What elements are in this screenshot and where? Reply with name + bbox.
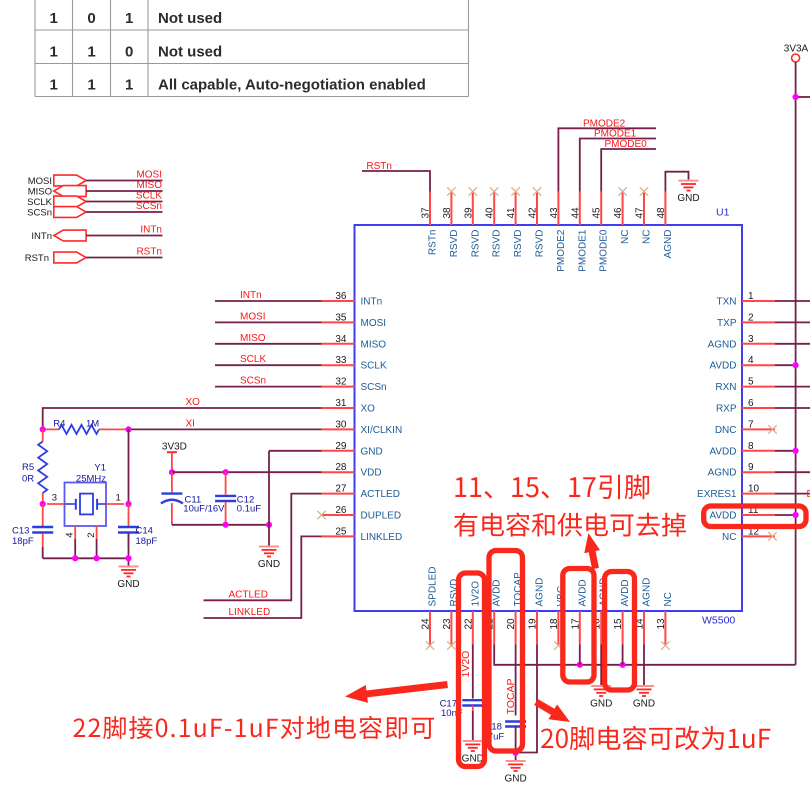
wire MOSI — [86, 180, 162, 182]
svg-text:1: 1 — [87, 44, 95, 61]
C17 bottom lead — [472, 706, 474, 712]
C11 top lead — [171, 472, 173, 492]
wire AGND pin 3 — [775, 343, 810, 345]
svg-text:1: 1 — [116, 493, 121, 504]
svg-text:RSVD: RSVD — [449, 230, 460, 258]
pin 20 TOCAP stub — [515, 611, 517, 645]
pin 32 SCSn stub — [322, 386, 355, 388]
svg-text:45: 45 — [592, 207, 603, 219]
wire crystal gnd rail — [43, 557, 129, 559]
svg-text:40: 40 — [485, 207, 496, 219]
wire AVDD pin 4 — [775, 364, 796, 366]
wire AGND pin19 — [516, 645, 537, 753]
wire AGND pin16 down — [600, 645, 602, 686]
junction TOCAP/AGND19 — [513, 750, 519, 756]
svg-text:VDD: VDD — [361, 468, 382, 479]
capacitor C11 plates — [161, 494, 183, 504]
svg-text:Not used: Not used — [158, 10, 222, 27]
no-connect pin 40 — [490, 187, 498, 195]
wire ACTLED — [204, 494, 322, 601]
svg-text:6: 6 — [748, 398, 754, 409]
svg-text:MISO: MISO — [361, 339, 387, 350]
capacitor C14 plates — [118, 527, 139, 533]
pin 44 PMODE1 stub — [579, 192, 581, 226]
pin 48 AGND stub — [664, 192, 666, 226]
junction C12 bottom — [223, 522, 229, 528]
no-connect pin 23 — [447, 641, 455, 649]
pin 35 MOSI stub — [322, 321, 355, 323]
ground (pin16) — [590, 686, 612, 710]
pin 45 PMODE0 stub — [600, 192, 602, 226]
svg-text:SCSn: SCSn — [136, 201, 162, 212]
svg-text:3V3A: 3V3A — [784, 44, 809, 55]
pin 9 AGND stub — [742, 471, 775, 473]
svg-text:19: 19 — [528, 618, 539, 630]
C14 bottom lead — [128, 534, 130, 548]
svg-text:10uF/16V: 10uF/16V — [183, 503, 225, 514]
svg-text:E: E — [807, 489, 810, 500]
svg-text:23: 23 — [442, 618, 453, 630]
pin 5 RXN stub — [742, 386, 775, 388]
svg-text:MISO: MISO — [240, 333, 266, 344]
svg-text:18pF: 18pF — [12, 536, 34, 547]
svg-text:1: 1 — [125, 77, 133, 94]
annotation arrow (20-pin note) — [534, 699, 570, 722]
svg-text:1V2O: 1V2O — [460, 651, 472, 678]
svg-text:Not used: Not used — [158, 44, 222, 61]
pin 37 RSTn stub — [429, 192, 431, 226]
svg-text:20: 20 — [506, 618, 517, 630]
wire MOSI — [215, 321, 322, 323]
wire AGND pin 9 — [775, 471, 810, 473]
svg-text:RSVD: RSVD — [492, 230, 503, 258]
C13 bottom lead — [42, 534, 44, 548]
3V3D bar — [167, 451, 177, 453]
svg-text:RSVD: RSVD — [470, 230, 481, 258]
highlight box pins 21/20 — [489, 551, 523, 752]
pin 8 AVDD stub — [742, 450, 775, 452]
svg-text:AGND: AGND — [535, 578, 546, 607]
svg-text:MOSI: MOSI — [136, 170, 162, 181]
svg-text:W5500: W5500 — [702, 615, 735, 627]
svg-text:31: 31 — [335, 398, 347, 409]
capacitor C12 plates — [215, 496, 236, 501]
svg-text:ACTLED: ACTLED — [361, 489, 400, 500]
ground (C17) — [462, 741, 484, 765]
highlight box pin17 — [563, 569, 594, 683]
annotation text line 1 — [455, 475, 649, 500]
junction pin4 — [72, 555, 78, 561]
svg-text:AGND: AGND — [642, 578, 653, 607]
pin 25 LINKLED stub — [322, 535, 355, 537]
no-connect pin 12 — [768, 532, 776, 540]
svg-text:36: 36 — [335, 291, 347, 302]
svg-text:44: 44 — [570, 207, 581, 219]
svg-text:RSTn: RSTn — [428, 230, 439, 256]
wire AVDD pin 11 — [775, 514, 796, 516]
highlight box pin15 — [605, 572, 635, 691]
svg-text:AVDD: AVDD — [492, 579, 503, 606]
pin 43 PMODE2 stub — [557, 192, 559, 226]
svg-text:3: 3 — [52, 493, 57, 504]
svg-text:46: 46 — [613, 207, 624, 219]
ground (C11 C12) — [258, 547, 280, 571]
svg-text:1: 1 — [748, 291, 754, 302]
svg-text:2: 2 — [86, 533, 97, 538]
pin 39 RSVD stub — [472, 192, 474, 226]
svg-text:GND: GND — [361, 446, 383, 457]
svg-text:15: 15 — [613, 618, 624, 630]
pin 42 RSVD stub — [536, 192, 538, 226]
svg-text:7: 7 — [748, 419, 754, 430]
svg-text:38: 38 — [442, 207, 453, 219]
capacitor C13 plates — [32, 527, 53, 533]
svg-text:XO: XO — [186, 397, 201, 408]
wire EXRES1 pin 10 — [775, 493, 810, 495]
svg-text:9: 9 — [748, 462, 754, 473]
pin 24 SPDLED stub — [429, 611, 431, 645]
svg-text:22: 22 — [463, 618, 474, 630]
svg-text:INTn: INTn — [240, 290, 262, 301]
pin 1 TXN stub — [742, 300, 775, 302]
wire to ground — [128, 558, 130, 566]
resistor R4 — [43, 425, 129, 434]
wire RXN pin 5 — [775, 386, 810, 388]
pin 31 XO stub — [322, 407, 355, 409]
svg-text:INTn: INTn — [140, 225, 162, 236]
svg-text:27: 27 — [335, 484, 347, 495]
wire PMODE0 — [601, 149, 656, 192]
svg-text:ACTLED: ACTLED — [229, 589, 268, 600]
port connector MISO — [54, 186, 86, 197]
svg-text:XO: XO — [361, 404, 376, 415]
svg-text:MOSI: MOSI — [28, 176, 52, 187]
svg-text:NC: NC — [642, 230, 653, 244]
no-connect DUPLED — [317, 511, 325, 519]
svg-text:0: 0 — [125, 44, 133, 61]
svg-text:RSVD: RSVD — [535, 230, 546, 258]
wire AGND pin14 down — [643, 645, 645, 686]
svg-text:INTn: INTn — [361, 297, 383, 308]
svg-text:NC: NC — [620, 230, 631, 244]
C11 bottom lead — [171, 503, 173, 525]
pin 36 INTn stub — [322, 300, 355, 302]
wire PMODE2 — [558, 128, 656, 191]
wire cap gnd rail — [172, 524, 269, 526]
svg-text:1: 1 — [50, 77, 58, 94]
C14 top lead — [128, 504, 130, 527]
svg-text:GND: GND — [258, 559, 280, 570]
svg-text:1: 1 — [125, 10, 133, 27]
svg-text:NC: NC — [722, 532, 736, 543]
resistor R5 — [38, 429, 47, 504]
wire AVDD pin17 down — [579, 645, 581, 665]
svg-text:DNC: DNC — [715, 425, 737, 436]
pin 47 NC stub — [643, 192, 645, 226]
junction XI/R4 — [125, 426, 131, 432]
wire Y1 pin4 — [74, 539, 76, 558]
wire XI — [129, 428, 322, 430]
svg-text:Y1: Y1 — [94, 463, 106, 474]
no-connect pin 18 — [554, 641, 562, 649]
svg-text:SCLK: SCLK — [240, 354, 266, 365]
wire C18 to gnd — [515, 727, 517, 761]
wire AVDD pin15 down — [622, 645, 624, 665]
ground (pin48) — [677, 181, 699, 205]
svg-text:AVDD: AVDD — [620, 579, 631, 606]
pin 41 RSVD stub — [515, 192, 517, 226]
svg-text:AGND: AGND — [663, 230, 674, 259]
svg-text:PMODE0: PMODE0 — [605, 139, 648, 150]
ground (pin14) — [633, 686, 655, 710]
wire INTn — [86, 235, 162, 237]
pin 11 AVDD stub — [742, 514, 775, 516]
svg-text:26: 26 — [335, 505, 347, 516]
pin 28 VDD stub — [322, 471, 355, 473]
svg-text:1: 1 — [50, 10, 58, 27]
svg-text:1: 1 — [87, 77, 95, 94]
truth table (top-left, cropped) — [35, 0, 469, 97]
no-connect pin 7 — [768, 425, 776, 433]
wire TOCAP down — [515, 645, 517, 716]
C12 bottom lead — [225, 502, 227, 525]
svg-text:30: 30 — [335, 419, 347, 430]
wire PMODE1 — [580, 139, 656, 192]
pin 33 SCLK stub — [322, 364, 355, 366]
no-connect pin 47 — [640, 187, 648, 195]
svg-text:0R: 0R — [22, 474, 34, 485]
svg-text:13: 13 — [656, 618, 667, 630]
svg-text:28: 28 — [335, 462, 347, 473]
pin 22 1V2O stub — [472, 611, 474, 645]
junction AVDD pin 4 — [793, 362, 799, 368]
wire C13 to gnd rail — [42, 547, 44, 558]
pin 2 TXP stub — [742, 321, 775, 323]
wire 3V3A rail — [795, 62, 797, 665]
svg-text:25: 25 — [335, 526, 347, 537]
svg-text:1: 1 — [50, 44, 58, 61]
svg-text:AVDD: AVDD — [709, 361, 736, 372]
wire SCSn — [215, 386, 322, 388]
svg-text:SCSn: SCSn — [361, 382, 387, 393]
svg-text:39: 39 — [463, 207, 474, 219]
svg-text:SCLK: SCLK — [361, 361, 387, 372]
svg-text:LINKLED: LINKLED — [229, 607, 271, 618]
svg-text:DUPLED: DUPLED — [361, 511, 402, 522]
pin 26 DUPLED stub — [322, 514, 355, 516]
svg-text:18: 18 — [549, 618, 560, 630]
svg-text:48: 48 — [656, 207, 667, 219]
no-connect pin 46 — [618, 187, 626, 195]
wire SCSn — [86, 211, 162, 213]
ground (C18) — [504, 761, 526, 785]
svg-text:AVDD: AVDD — [709, 511, 736, 522]
svg-text:MOSI: MOSI — [361, 318, 387, 329]
wire C14 to gnd — [128, 534, 130, 559]
svg-text:NC: NC — [663, 592, 674, 606]
svg-text:SCLK: SCLK — [136, 191, 162, 202]
wire AVDD pin 8 — [775, 450, 796, 452]
junction AVDD pin17 — [577, 662, 583, 668]
capacitor C17 plates — [462, 700, 483, 705]
svg-text:EXRES1: EXRES1 — [697, 489, 737, 500]
C13 top lead — [42, 504, 44, 527]
port connector RSTn — [54, 252, 86, 263]
wire TXP pin 2 — [775, 321, 810, 323]
wire XI to crystal — [128, 429, 130, 504]
pin 27 ACTLED stub — [322, 493, 355, 495]
svg-text:8: 8 — [748, 441, 754, 452]
pin 30 XI/CLKIN stub — [322, 428, 355, 430]
svg-text:33: 33 — [335, 355, 347, 366]
svg-text:MOSI: MOSI — [240, 311, 266, 322]
wire 3V3A branch right — [796, 96, 810, 98]
wire MISO — [86, 190, 162, 192]
pin 14 AGND stub — [643, 611, 645, 645]
svg-text:47: 47 — [635, 207, 646, 219]
svg-text:18pF: 18pF — [136, 536, 158, 547]
svg-text:4: 4 — [748, 355, 754, 366]
junction XI/Y1-1/C14 — [125, 501, 131, 507]
pin 7 DNC stub — [742, 428, 775, 430]
3V3D lead — [171, 452, 173, 472]
pin 18 VBG stub — [557, 611, 559, 645]
svg-text:3V3D: 3V3D — [162, 442, 187, 453]
pin 4 AVDD stub — [742, 364, 775, 366]
svg-text:29: 29 — [335, 441, 347, 452]
port connector SCSn — [54, 207, 86, 218]
svg-text:2: 2 — [748, 312, 754, 323]
pin 16 AGND stub — [600, 611, 602, 645]
pin 29 GND stub — [322, 450, 355, 452]
svg-text:SPDLED: SPDLED — [428, 566, 439, 606]
C12 top lead — [225, 472, 227, 495]
svg-text:41: 41 — [506, 207, 517, 219]
no-connect pin 42 — [533, 187, 541, 195]
highlight box pin11 AVDD — [704, 506, 806, 527]
svg-text:RSVD: RSVD — [513, 230, 524, 258]
svg-text:PMODE2: PMODE2 — [556, 229, 567, 272]
no-connect pin 38 — [447, 187, 455, 195]
pin 10 EXRES1 stub — [742, 493, 775, 495]
wire AGND pin48 — [665, 172, 688, 192]
svg-text:XI/CLKIN: XI/CLKIN — [361, 425, 403, 436]
svg-text:RXN: RXN — [715, 382, 736, 393]
svg-text:3: 3 — [748, 334, 754, 345]
svg-text:GND: GND — [677, 193, 699, 204]
pin 21 AVDD stub — [493, 611, 495, 645]
junction C12 top — [223, 469, 229, 475]
svg-text:35: 35 — [335, 312, 347, 323]
svg-text:R5: R5 — [22, 462, 34, 473]
svg-text:32: 32 — [335, 377, 347, 388]
svg-text:17: 17 — [570, 618, 581, 630]
wire RSTn to pin37 — [362, 171, 430, 192]
junction R5/C13/Y1-3 — [40, 501, 46, 507]
junction 3V3A branch — [793, 94, 799, 100]
svg-text:TXN: TXN — [717, 297, 737, 308]
pin 17 AVDD stub — [579, 611, 581, 645]
svg-text:LINKLED: LINKLED — [361, 532, 403, 543]
annotation text (pin20 note) — [541, 726, 770, 750]
pin 46 NC stub — [622, 192, 624, 226]
crystal pin 1 stub — [106, 503, 124, 505]
no-connect pin 39 — [469, 187, 477, 195]
crystal pin 3 stub — [47, 503, 65, 505]
svg-text:PMODE1: PMODE1 — [577, 229, 588, 272]
svg-text:RXP: RXP — [716, 404, 737, 415]
svg-text:R4: R4 — [53, 419, 65, 430]
wire TXN pin 1 — [775, 300, 810, 302]
wire GND pin29 — [269, 450, 322, 452]
svg-text:PMODE0: PMODE0 — [599, 229, 610, 272]
junction AVDD pin15 — [620, 662, 626, 668]
svg-text:RSTn: RSTn — [136, 247, 162, 258]
svg-text:RSTn: RSTn — [25, 253, 49, 264]
svg-text:All capable, Auto-negotiation: All capable, Auto-negotiation enabled — [158, 77, 426, 94]
svg-text:37: 37 — [421, 207, 432, 219]
crystal Y1 25MHz — [65, 483, 107, 540]
svg-text:TOCAP: TOCAP — [505, 679, 517, 715]
no-connect pin 13 — [661, 641, 669, 649]
pin 13 NC stub — [664, 611, 666, 645]
svg-text:GND: GND — [633, 699, 655, 710]
svg-text:SCSn: SCSn — [240, 376, 266, 387]
highlight box pin22 1V2O — [459, 573, 485, 767]
wire SCLK — [215, 364, 322, 366]
svg-text:MISO: MISO — [136, 180, 162, 191]
pin 38 RSVD stub — [450, 192, 452, 226]
svg-text:GND: GND — [117, 579, 139, 590]
svg-text:TXP: TXP — [717, 318, 737, 329]
junction 3V3D/VDD — [169, 469, 175, 475]
pin 3 AGND stub — [742, 343, 775, 345]
capacitor C18 plates — [505, 722, 526, 727]
wire Y1 pin2 — [96, 539, 98, 558]
svg-text:10: 10 — [748, 484, 760, 495]
annotation arrow (22-pin note) — [345, 681, 448, 703]
svg-text:GND: GND — [504, 774, 526, 785]
wire AVDD bottom rail — [494, 645, 795, 665]
junction XO/R4/R5 — [40, 426, 46, 432]
svg-text:34: 34 — [335, 334, 347, 345]
svg-text:25MHz: 25MHz — [76, 473, 106, 484]
svg-text:AVDD: AVDD — [577, 579, 588, 606]
wire XO — [43, 408, 322, 429]
port connector INTn — [54, 230, 86, 241]
svg-text:1M: 1M — [86, 419, 99, 430]
svg-text:SCSn: SCSn — [27, 208, 52, 219]
svg-text:0: 0 — [87, 10, 95, 27]
pin 34 MISO stub — [322, 343, 355, 345]
pin 19 AGND stub — [536, 611, 538, 645]
svg-text:5: 5 — [748, 377, 754, 388]
svg-text:4: 4 — [65, 533, 76, 538]
wire GND pin29 down — [268, 451, 270, 547]
svg-text:AVDD: AVDD — [709, 446, 736, 457]
svg-text:SCLK: SCLK — [27, 197, 52, 208]
svg-text:PMODE1: PMODE1 — [594, 129, 637, 140]
pin 40 RSVD stub — [493, 192, 495, 226]
pin 23 RSVD stub — [450, 611, 452, 645]
svg-text:43: 43 — [549, 207, 560, 219]
ground (crystal) — [117, 567, 139, 591]
wire RXP pin 6 — [775, 407, 810, 409]
svg-text:XI: XI — [186, 419, 195, 430]
junction AVDD pin 8 — [793, 448, 799, 454]
svg-text:GND: GND — [590, 699, 612, 710]
wire 1V2O down — [472, 645, 474, 699]
